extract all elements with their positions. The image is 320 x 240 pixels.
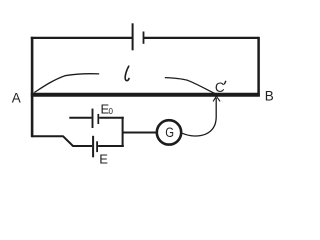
- svg-text:A: A: [12, 91, 21, 106]
- svg-text:G: G: [165, 125, 174, 140]
- svg-text:0: 0: [109, 107, 114, 116]
- svg-text:B: B: [265, 88, 274, 103]
- svg-text:E: E: [99, 151, 108, 166]
- svg-text:C: C: [215, 80, 225, 95]
